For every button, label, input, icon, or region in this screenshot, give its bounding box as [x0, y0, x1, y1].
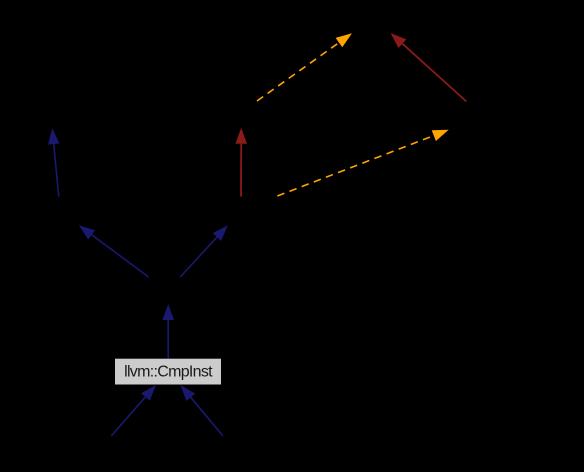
svg-text:llvm::ilist_node< Instruction: llvm::ilist_node< Instruction >	[149, 202, 334, 219]
node llvm::CmpInst (current)	[115, 358, 222, 385]
node llvm::ICmpInst	[172, 436, 274, 464]
node llvm::ilist_half_node< Instruction >	[140, 102, 356, 130]
node llvm::Instruction	[110, 277, 227, 304]
edge FCmpInst->CmpInst	[111, 385, 156, 436]
node llvm::User	[22, 197, 96, 225]
svg-text:llvm::ilist_half_node< Instruc: llvm::ilist_half_node< Instruction >	[140, 107, 356, 124]
node llvm::Value	[13, 102, 91, 130]
edge ilist_half_node<Instruction>->ilist_half_node<NodeTy> (template)	[257, 33, 352, 101]
node llvm::ilist_node< NodeTy >	[381, 102, 551, 130]
svg-text:llvm::User: llvm::User	[27, 202, 92, 219]
svg-text:llvm::Value: llvm::Value	[17, 107, 87, 124]
edge Instruction->User	[79, 225, 149, 277]
edge ICmpInst->CmpInst	[181, 385, 224, 436]
svg-text:llvm::ilist_node< NodeTy >: llvm::ilist_node< NodeTy >	[381, 107, 551, 124]
edge ilist_node<NodeTy>->ilist_half_node<NodeTy> (private)	[391, 33, 467, 102]
node llvm::ilist_half_node< NodeTy >	[278, 5, 479, 34]
edge CmpInst->Instruction	[162, 304, 174, 358]
svg-text:llvm::ilist_half_node< NodeTy: llvm::ilist_half_node< NodeTy >	[278, 11, 479, 28]
svg-text:< Instruction >: < Instruction >	[324, 156, 416, 172]
node llvm::ilist_node< Instruction >	[149, 197, 334, 225]
svg-text:< Instruction >: < Instruction >	[259, 60, 351, 76]
edge Instruction->ilist_node<Instruction>	[180, 225, 228, 277]
edge ilist_node<Instruction>->ilist_half_node<Instruction> (private)	[235, 128, 247, 197]
edge ilist_node<Instruction>->ilist_node<NodeTy> (template)	[277, 130, 448, 196]
edge User->Value	[48, 128, 60, 197]
svg-text:llvm::CmpInst: llvm::CmpInst	[124, 364, 213, 381]
node llvm::FCmpInst	[60, 436, 162, 464]
svg-text:llvm::FCmpInst: llvm::FCmpInst	[63, 442, 161, 459]
svg-text:llvm::Instruction: llvm::Instruction	[119, 282, 218, 299]
svg-text:llvm::ICmpInst: llvm::ICmpInst	[177, 442, 270, 459]
